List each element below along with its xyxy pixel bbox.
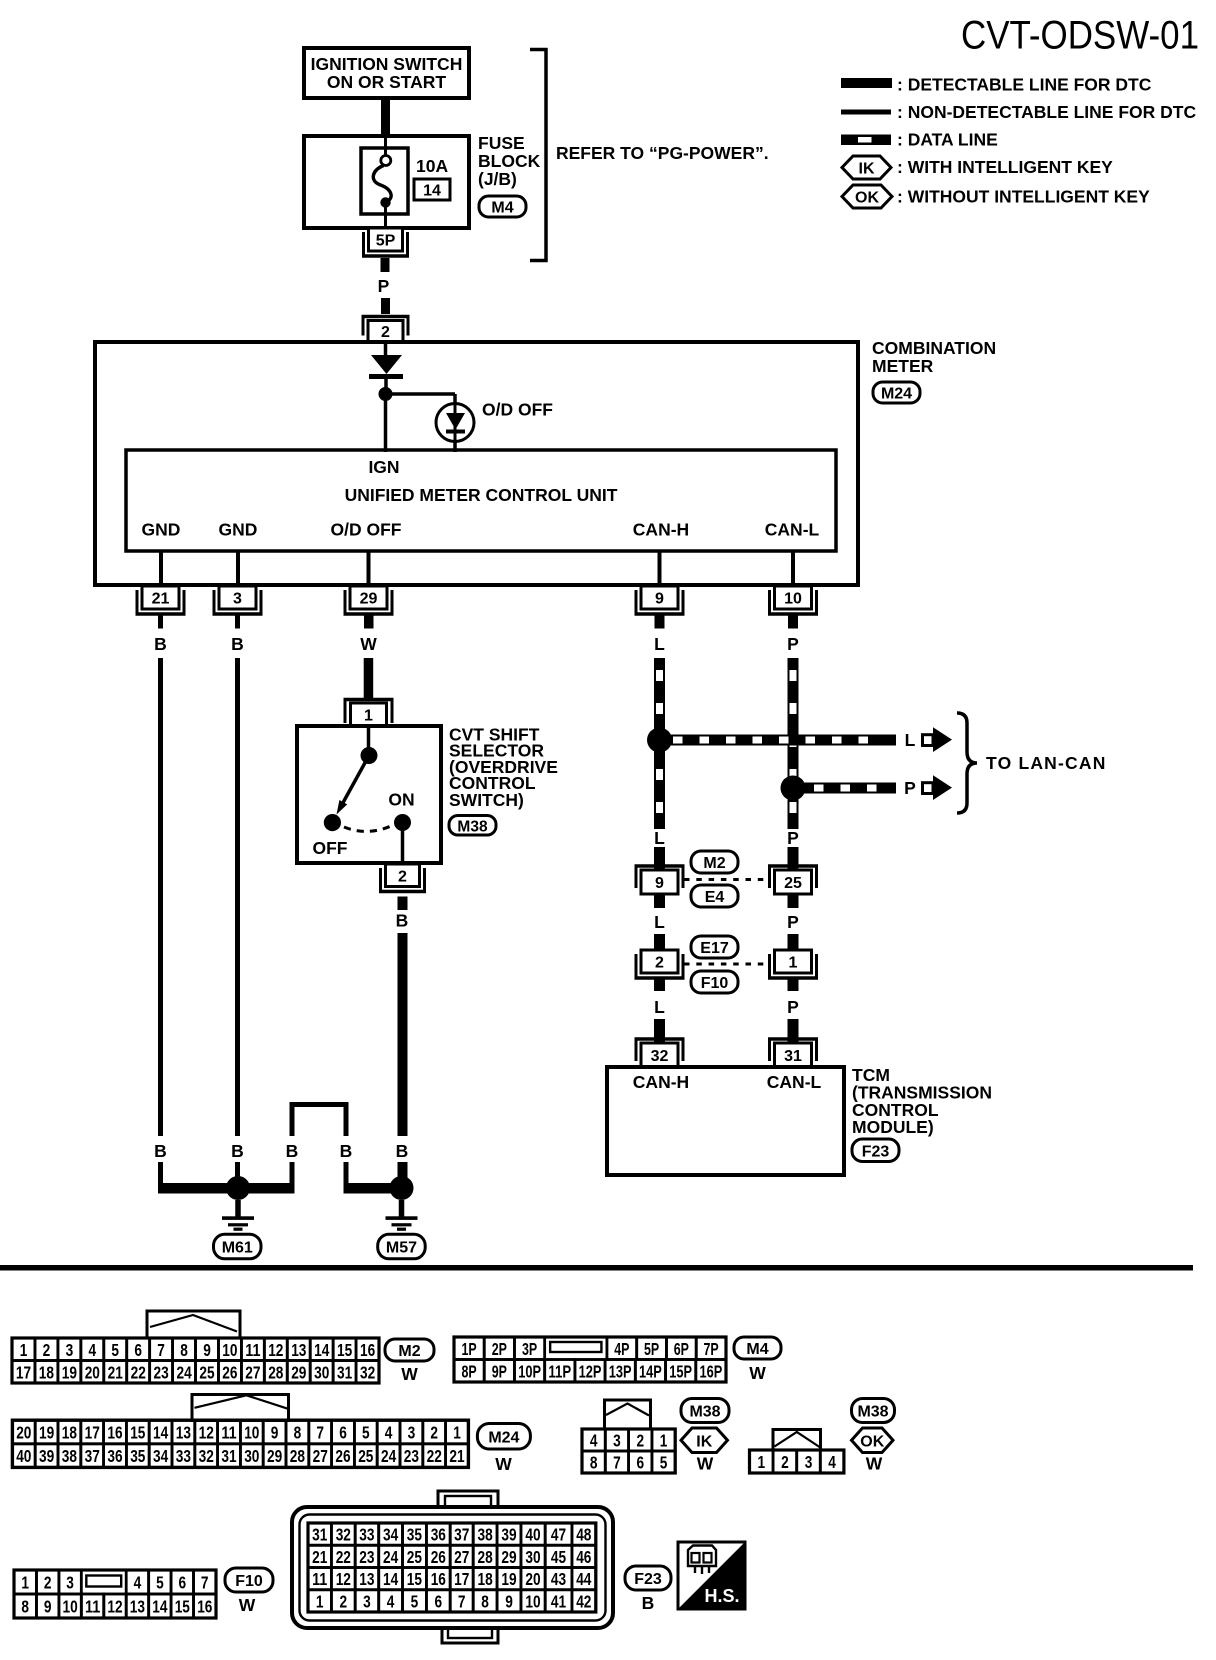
switch ON contact [394,814,411,831]
switch connector 2 [379,864,426,893]
svg-text:1: 1 [364,708,373,725]
wire B loop left lower [238,1162,295,1194]
switch arm with arrow [337,756,370,815]
svg-text:24: 24 [177,1362,193,1382]
switch connector 1 [344,698,394,726]
wire P fuse to meter [381,258,391,314]
wire label P 2 [787,634,799,654]
svg-text:29: 29 [291,1362,306,1382]
meter pin 3 [213,586,263,615]
svg-text:6: 6 [179,1573,187,1593]
svg-text:B: B [231,1141,244,1161]
svg-text:40: 40 [525,1525,540,1545]
svg-text:10P: 10P [518,1361,541,1381]
svg-text:9P: 9P [492,1361,507,1381]
svg-text:SWITCH): SWITCH) [449,790,524,810]
switch common wire [367,726,371,752]
svg-text:8P: 8P [462,1361,477,1381]
fuse block J/B box [304,136,469,228]
svg-text:7: 7 [316,1423,324,1443]
svg-text:GND: GND [142,520,181,540]
legend label data line [897,130,998,150]
svg-text:18: 18 [39,1362,55,1382]
svg-text:3P: 3P [522,1339,537,1359]
wire O/D OFF to pin [367,551,371,586]
svg-text:32: 32 [360,1362,375,1382]
svg-text:1: 1 [453,1423,461,1443]
ground symbol M61 [222,1200,254,1231]
wire ignition switch to fuse block [381,98,390,136]
svg-text:21: 21 [312,1547,328,1567]
svg-text:45: 45 [551,1547,567,1567]
svg-text:25: 25 [407,1547,423,1567]
svg-text:7: 7 [201,1573,209,1593]
svg-text:1: 1 [758,1452,766,1472]
svg-text:9: 9 [44,1597,52,1617]
svg-text:W: W [239,1595,256,1615]
label F23 color B [642,1593,655,1613]
svg-text:6: 6 [637,1453,645,1473]
svg-text:38: 38 [478,1525,494,1545]
svg-text:22: 22 [427,1446,442,1466]
svg-text:P: P [378,276,390,296]
svg-text:L: L [654,634,665,654]
svg-text:M38: M38 [457,818,488,835]
meter pin 10 [768,586,818,615]
wire label B 2 [231,634,244,654]
svg-text:L: L [654,912,665,932]
svg-text:39: 39 [501,1525,516,1545]
wire stub below 25 [788,894,799,908]
svg-text:32: 32 [651,1048,669,1065]
svg-text:E4: E4 [705,889,725,906]
connector F10 oval [691,971,738,993]
svg-text:10: 10 [63,1597,78,1617]
svg-text:12: 12 [336,1569,351,1589]
svg-text:9: 9 [505,1592,513,1612]
label ON [388,790,414,810]
svg-text:6: 6 [134,1340,142,1360]
connector pinout F10 grid [14,1570,216,1618]
svg-text:33: 33 [359,1525,374,1545]
svg-text:18: 18 [478,1569,494,1589]
svg-text:B: B [396,911,409,931]
svg-text:36: 36 [431,1525,446,1545]
svg-text:9: 9 [203,1340,211,1360]
svg-text:30: 30 [525,1547,540,1567]
svg-text:FUSE: FUSE [478,133,525,153]
svg-text:30: 30 [244,1446,259,1466]
harness connector 25 [768,865,818,894]
svg-text:3: 3 [66,1573,74,1593]
symbol OK [852,1428,894,1453]
label COMBINATION METER [872,338,996,376]
svg-text:COMBINATION: COMBINATION [872,338,996,358]
svg-text:B: B [231,634,244,654]
wire B switch final [398,1162,408,1188]
svg-text:M4: M4 [491,200,513,217]
svg-text:4: 4 [590,1431,598,1451]
svg-text:M61: M61 [222,1240,253,1257]
svg-text:1: 1 [20,1340,28,1360]
svg-text:B: B [340,1141,353,1161]
connector pinout M2 grid [12,1338,379,1383]
dashed link M2-E4 [684,878,769,881]
terminal label CAN-H TCM [633,1072,689,1092]
svg-text:F23: F23 [862,1143,890,1160]
label M38 OK color W [866,1454,883,1474]
wire label L branch [905,730,916,750]
terminal label CAN-L [765,520,820,540]
svg-text:MODULE): MODULE) [852,1117,934,1137]
svg-text:2: 2 [655,955,664,972]
wire stub pin 29 [364,615,374,629]
connector M24 oval [873,382,920,403]
svg-text:33: 33 [176,1446,191,1466]
svg-text:B: B [154,1141,167,1161]
wire branch to O/D OFF lamp [386,394,456,406]
wire stub below switch [398,897,408,911]
svg-text:13P: 13P [609,1361,632,1381]
wire B gnd2 upper [235,658,240,1136]
svg-text:M38: M38 [689,1404,720,1421]
svg-text:44: 44 [576,1569,592,1589]
dashed link E17-F10 [684,963,769,966]
svg-text:2: 2 [44,1573,52,1593]
svg-text:UNIFIED METER CONTROL UNIT: UNIFIED METER CONTROL UNIT [345,485,618,505]
svg-text:14: 14 [153,1423,169,1443]
svg-text:B: B [396,1141,409,1161]
svg-text:20: 20 [85,1362,100,1382]
switch OFF contact [324,814,341,831]
switch common node [361,747,378,764]
label TCM [852,1065,992,1137]
wire label B loop left [286,1141,299,1161]
svg-text:4: 4 [387,1592,395,1612]
svg-text:W: W [749,1363,766,1383]
CAN-H data line upper [654,658,665,829]
switch dashed travel arc [344,826,392,832]
connector M4 table oval [734,1337,781,1359]
svg-text:BLOCK: BLOCK [478,151,541,171]
wire stub pin 21 [158,615,163,629]
svg-text:8: 8 [21,1597,29,1617]
svg-text:: DATA LINE: : DATA LINE [897,130,998,150]
svg-text:2P: 2P [492,1339,507,1359]
svg-text:W: W [401,1364,418,1384]
svg-text:35: 35 [407,1525,423,1545]
label F10 color W [239,1595,256,1615]
svg-text:14P: 14P [639,1361,662,1381]
svg-text:H.S.: H.S. [704,1586,739,1606]
svg-text:2: 2 [637,1431,645,1451]
svg-text:19: 19 [39,1423,54,1443]
svg-text:: WITHOUT INTELLIGENT KEY: : WITHOUT INTELLIGENT KEY [897,187,1150,207]
bracket refer to PG-POWER [530,48,548,262]
wire B gnd1 upper [158,658,163,1136]
CVT shift selector switch box [297,726,441,863]
svg-text:43: 43 [551,1569,566,1589]
svg-text:L: L [654,997,665,1017]
wire CAN-L to pin [791,551,795,586]
svg-text:47: 47 [551,1525,566,1545]
CAN-H data line lower [654,1019,665,1043]
connector M4 oval [479,196,526,217]
svg-text:21: 21 [152,591,170,608]
connector pinout M24 tab [192,1395,289,1421]
svg-text:F23: F23 [634,1571,662,1588]
svg-text:2: 2 [398,868,407,885]
svg-text:CAN-H: CAN-H [633,520,689,540]
TCM box [607,1067,844,1175]
svg-text:E17: E17 [700,940,729,957]
svg-text:12: 12 [268,1340,283,1360]
meter pin 29 [344,586,394,615]
svg-text:41: 41 [551,1592,567,1612]
label 10A [416,156,448,176]
svg-text:: WITH INTELLIGENT KEY: : WITH INTELLIGENT KEY [897,157,1113,177]
svg-text:IGNITION SWITCH: IGNITION SWITCH [311,54,463,74]
svg-text:35: 35 [130,1446,146,1466]
CAN-L data line lower [788,1019,799,1043]
connector pinout M38 IK tab [605,1400,651,1429]
svg-text:14: 14 [423,183,441,200]
svg-text:5: 5 [411,1592,419,1612]
unified meter control unit box [126,450,836,551]
connector F23 table oval [625,1566,671,1590]
connector M2 table oval [385,1339,434,1361]
legend non-detectable line sample [841,110,891,115]
svg-text:6: 6 [435,1592,443,1612]
svg-text:3: 3 [805,1452,813,1472]
svg-text:CAN-L: CAN-L [765,520,820,540]
svg-text:39: 39 [39,1446,54,1466]
wire label B switch [396,911,409,931]
svg-text:M2: M2 [703,855,725,872]
svg-text:8: 8 [180,1340,188,1360]
svg-text:3: 3 [613,1431,621,1451]
arrow L to LAN-CAN [923,727,953,752]
svg-text:27: 27 [454,1547,469,1567]
svg-text:P: P [904,778,916,798]
svg-text:10: 10 [222,1340,237,1360]
svg-text:10: 10 [244,1423,259,1443]
svg-text:32: 32 [199,1446,214,1466]
svg-text:29: 29 [267,1446,282,1466]
svg-text:25: 25 [199,1362,215,1382]
svg-text:10: 10 [784,591,802,608]
wire CAN-H to pin [658,551,662,586]
wire label B 1 [154,634,167,654]
connector M38 OK oval [852,1399,895,1423]
svg-text:27: 27 [245,1362,260,1382]
legend detectable line sample [841,78,892,88]
svg-text:20: 20 [525,1569,540,1589]
svg-text:16P: 16P [700,1361,723,1381]
svg-text:26: 26 [222,1362,237,1382]
connector pinout M38 OK grid [750,1450,844,1473]
CAN-H data line to connector [654,847,665,870]
svg-text:4: 4 [828,1452,836,1472]
wire stub below 2 [654,979,665,991]
svg-text:IK: IK [859,161,875,178]
svg-text:10: 10 [525,1592,540,1612]
svg-text:16: 16 [360,1340,375,1360]
connector E17 oval [691,936,738,958]
connector pinout M2 tab [147,1311,240,1338]
svg-text:12: 12 [107,1597,122,1617]
label M2 color W [401,1364,418,1384]
terminal label GND 1 [142,520,181,540]
svg-text:16: 16 [431,1569,446,1589]
label O/D OFF lamp [482,400,553,420]
terminal label CAN-L TCM [767,1072,822,1092]
ground symbol M57 [386,1200,418,1231]
connector M24 table oval [477,1424,530,1450]
svg-text:31: 31 [221,1446,237,1466]
svg-text:M24: M24 [488,1429,519,1446]
svg-text:F10: F10 [701,975,729,992]
wire stub below 9 [654,894,665,908]
CAN-L branch to LAN [793,783,896,794]
svg-text:17: 17 [85,1423,100,1443]
label M38 IK color W [697,1454,714,1474]
svg-text:46: 46 [576,1547,591,1567]
CAN-L junction node [781,776,806,801]
svg-text:W: W [697,1454,714,1474]
svg-text:4: 4 [134,1573,142,1593]
connector M38 IK oval [681,1399,729,1423]
svg-text:2: 2 [43,1340,51,1360]
svg-text:(J/B): (J/B) [478,169,517,189]
TCM pin 32 [635,1038,685,1067]
svg-text:28: 28 [478,1547,494,1567]
diode D1 [369,355,403,394]
svg-text:7: 7 [157,1340,165,1360]
svg-text:4: 4 [385,1423,393,1443]
wire label L 3 [654,997,665,1017]
svg-text:29: 29 [360,591,378,608]
wire B gnd2 lower [235,1162,240,1183]
svg-text:CAN-L: CAN-L [767,1072,822,1092]
svg-text:2: 2 [381,324,390,341]
label TO LAN-CAN [986,753,1107,773]
connector pinout F23 [292,1491,613,1643]
label CVT SHIFT SELECTOR [449,725,558,811]
svg-text:IGN: IGN [368,457,399,477]
connector F23 oval [852,1139,899,1162]
svg-text:15P: 15P [669,1361,692,1381]
svg-text:P: P [787,997,799,1017]
connector M61 oval [214,1234,262,1259]
svg-text:34: 34 [383,1525,399,1545]
svg-text:6: 6 [339,1423,347,1443]
svg-text:: NON-DETECTABLE LINE FOR DTC: : NON-DETECTABLE LINE FOR DTC [897,102,1196,122]
svg-text:11: 11 [312,1569,328,1589]
svg-text:5: 5 [362,1423,370,1443]
wire label B switch 2 [396,1141,409,1161]
wire B switch to ground [398,933,408,1136]
svg-text:7: 7 [458,1592,466,1612]
svg-text:11: 11 [245,1340,261,1360]
title CVT-ODSW-01 [961,14,1199,58]
wire stub pin 10 [788,615,798,629]
svg-text:M24: M24 [881,386,912,403]
svg-text:OK: OK [860,1433,884,1450]
svg-text:W: W [866,1454,883,1474]
svg-text:23: 23 [404,1446,419,1466]
wire label P [378,276,390,296]
legend label non-detectable [897,102,1196,122]
svg-text:7P: 7P [704,1339,719,1359]
svg-text:22: 22 [336,1547,351,1567]
svg-text:14: 14 [314,1340,330,1360]
CAN-H junction node [647,728,672,753]
svg-text:M57: M57 [386,1240,417,1257]
ground node M57 [390,1176,414,1200]
svg-text:CAN-H: CAN-H [633,1072,689,1092]
svg-text:1: 1 [789,955,798,972]
svg-text:26: 26 [335,1446,350,1466]
svg-text:14: 14 [383,1569,399,1589]
svg-text:METER: METER [872,356,934,376]
connector E4 oval [691,885,738,907]
svg-text:P: P [787,828,799,848]
connector pinout M24 grid [12,1420,468,1467]
connector M57 oval [378,1234,426,1259]
legend data line sample [841,135,891,146]
connector pinout M4 grid [454,1337,726,1382]
label REFER TO PG-POWER [556,143,769,163]
svg-text:23: 23 [154,1362,169,1382]
svg-text:12: 12 [199,1423,214,1443]
wire stub pin 9 [655,615,665,629]
legend IK symbol [842,156,891,179]
label UNIFIED METER CONTROL UNIT [345,485,618,505]
svg-text:5: 5 [111,1340,119,1360]
wire label L mid [654,828,665,848]
arrow P to LAN-CAN [923,775,953,800]
svg-text:40: 40 [16,1446,31,1466]
svg-text:16: 16 [197,1597,212,1617]
CAN-L data line to connector [788,847,799,870]
svg-text:2: 2 [340,1592,348,1612]
label OFF [313,838,348,858]
svg-text:24: 24 [381,1446,397,1466]
terminal label CAN-H [633,520,689,540]
connector F10 table oval [225,1568,273,1592]
connector M2 oval [691,851,738,873]
connector pinout M38 IK grid [582,1429,675,1473]
view point H.S. icon [678,1542,745,1609]
ignition switch power supply box [304,48,469,98]
harness connector 2 [635,950,685,979]
O/D OFF indicator lamp [436,404,474,453]
combination meter box [95,342,858,585]
wire B gnd1 lower [158,1162,238,1194]
fuse F14 10A [361,136,408,228]
wire GND1 to pin [159,551,163,586]
wire label L [654,634,665,654]
symbol IK [681,1428,728,1453]
wire ON contact to pin 2 [401,829,405,864]
svg-text:25: 25 [784,875,802,892]
svg-text:1: 1 [660,1431,668,1451]
svg-text:15: 15 [337,1340,353,1360]
wire label W [360,634,377,654]
svg-text:TO LAN-CAN: TO LAN-CAN [986,753,1107,773]
svg-text:38: 38 [62,1446,78,1466]
